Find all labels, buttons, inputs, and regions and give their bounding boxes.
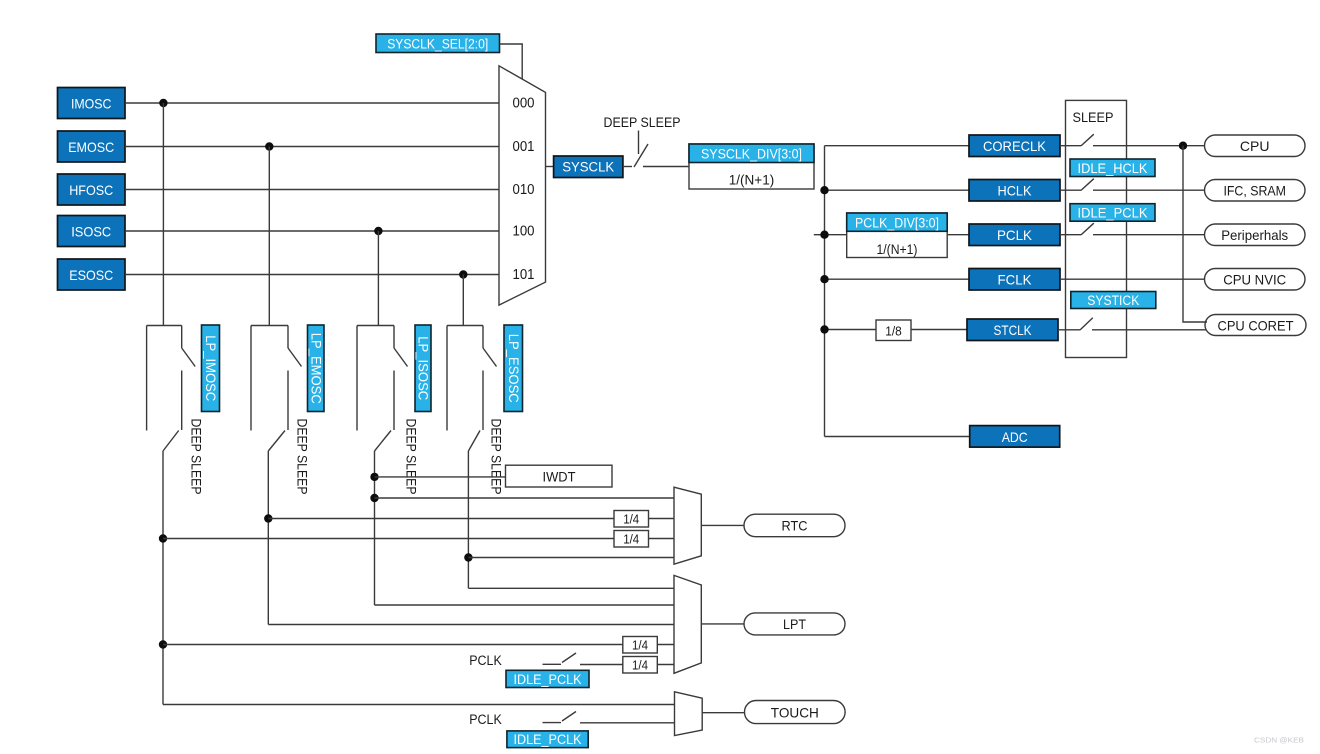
divider box 1/4 (LPT upper) [623, 637, 658, 654]
switch DEEP SLEEP blade (ESOSC) [468, 431, 480, 452]
divider box 1/4 (RTC upper) [614, 511, 649, 528]
svg-text:IDLE_HCLK: IDLE_HCLK [1078, 161, 1148, 176]
wire main clock bus vertical [824, 146, 826, 437]
svg-text:IDLE_PCLK: IDLE_PCLK [514, 672, 582, 687]
wire SYSCLK_SEL to mux select [500, 44, 523, 79]
wire STCLK to systick switch [1058, 329, 1080, 331]
wire LP network top bar (ISOSC) [357, 325, 394, 327]
oscillator box IMOSC [58, 88, 126, 119]
divider box 1/8 [876, 320, 911, 341]
wire LP network right branch lower (ISOSC) [393, 371, 395, 431]
mux U4 TOUCH clock selector [675, 692, 703, 736]
wire EMOSC to mux input [125, 146, 500, 148]
oscillator box EMOSC [58, 131, 126, 162]
svg-text:CPU: CPU [1240, 138, 1270, 154]
svg-text:DEEP SLEEP: DEEP SLEEP [604, 114, 681, 130]
wire ISOSC to RTC mux in1 [375, 497, 675, 499]
svg-text:PCLK: PCLK [997, 227, 1033, 243]
wire ISOSC LP output vertical [374, 451, 376, 605]
svg-text:IWDT: IWDT [543, 469, 576, 485]
wire ISOSC to IWDT [375, 476, 506, 478]
control box IDLE_PCLK [1070, 204, 1155, 222]
mux U1 system clock selector [499, 66, 546, 305]
svg-text:LPT: LPT [783, 616, 806, 632]
svg-text:CORECLK: CORECLK [983, 138, 1047, 154]
svg-text:IFC, SRAM: IFC, SRAM [1223, 183, 1286, 199]
junction dot bus/PCLK [820, 231, 828, 239]
oscillator box ISOSC [58, 216, 126, 247]
control box LP_EMOSC [308, 325, 325, 412]
wire 1/4 to LPT mux in4 [657, 644, 674, 646]
wire switch to Periperhals [1093, 234, 1205, 236]
wire bus to CORECLK [825, 145, 970, 147]
wire mux output to SYSCLK [546, 166, 554, 168]
junction dot IMOSC/RTC [159, 534, 167, 542]
wire ESOSC to LPT mux in1 [468, 587, 674, 589]
control box LP_ESOSC [504, 325, 523, 412]
wire LP network top bar (ESOSC) [447, 325, 483, 327]
wire LP network right branch (EMOSC) [287, 326, 289, 349]
junction dot on IMOSC line [159, 99, 167, 107]
junction dot EMOSC/RTC [264, 514, 272, 522]
wire 1/4 to RTC mux in3 [649, 538, 675, 540]
wire 1/4 to LPT mux in5 [657, 664, 674, 666]
svg-text:EMOSC: EMOSC [68, 139, 114, 155]
svg-text:1/4: 1/4 [632, 658, 648, 673]
oscillator box HFOSC [58, 174, 126, 205]
mux U2 RTC clock selector [674, 487, 701, 564]
clock box HCLK [969, 180, 1060, 202]
wire RTC mux to RTC [701, 524, 744, 526]
wire HCLK to idle switch [1060, 189, 1081, 191]
svg-text:1/4: 1/4 [632, 638, 648, 653]
wire EMOSC drop to LP network [268, 147, 270, 326]
destination pill Periperhals [1205, 224, 1306, 246]
wire CPU line down to CPU CORET [1183, 146, 1207, 322]
destination pill CPU NVIC [1205, 269, 1306, 291]
wire LPT mux to LPT [701, 623, 744, 625]
svg-text:LP_ESOSC: LP_ESOSC [506, 334, 521, 403]
svg-text:SYSCLK_SEL[2:0]: SYSCLK_SEL[2:0] [387, 36, 488, 51]
wire PCLK stub (TOUCH) [543, 722, 562, 724]
wire PCLK to idle switch [1060, 234, 1081, 236]
wire stub left of bus at PCLK row [814, 234, 825, 236]
destination pill CPU CORET [1205, 315, 1306, 336]
divider block PCLK_DIV[3:0] 1/(N+1) [847, 213, 948, 258]
wire IMOSC to TOUCH mux in1 [163, 704, 675, 706]
svg-text:Periperhals: Periperhals [1221, 227, 1288, 243]
switch idle gate for PCLK [1081, 223, 1094, 235]
switch DEEP SLEEP blade (EMOSC) [268, 431, 285, 452]
wire CORECLK to idle switch [1060, 145, 1081, 147]
svg-text:1/8: 1/8 [885, 323, 902, 338]
svg-text:HFOSC: HFOSC [69, 182, 113, 198]
divider box 1/4 (LPT lower) [623, 657, 658, 674]
svg-text:ADC: ADC [1002, 429, 1028, 445]
wire ISOSC to LPT mux in2 [375, 604, 675, 606]
svg-text:1/4: 1/4 [623, 532, 639, 547]
wire LP network right branch (ESOSC) [482, 326, 484, 349]
junction dot bus/FCLK [820, 275, 828, 283]
wire ESOSC drop to LP network [462, 275, 464, 326]
junction dot on ISOSC line [374, 227, 382, 235]
wire PCLK_DIV to PCLK [947, 234, 969, 236]
svg-text:000: 000 [513, 96, 535, 112]
switch IDLE_PCLK blade (LPT) [562, 653, 576, 663]
switch LP_ISOSC blade [394, 348, 408, 367]
wire ESOSC LP output vertical [467, 451, 469, 588]
switch idle gate for CORECLK [1081, 134, 1094, 146]
svg-text:CPU NVIC: CPU NVIC [1223, 272, 1286, 288]
destination pill LPT [744, 613, 845, 635]
control box SYSTICK [1071, 292, 1156, 309]
svg-text:IMOSC: IMOSC [71, 96, 112, 112]
svg-text:101: 101 [513, 267, 535, 283]
svg-text:ESOSC: ESOSC [69, 267, 113, 283]
wire IMOSC to mux input [125, 102, 500, 104]
junction dot bus/HCLK [820, 186, 828, 194]
wire LP network left branch (EMOSC) [250, 326, 252, 431]
wire bus to 1/8 divider [825, 329, 877, 331]
wire 1/8 to STCLK [911, 329, 967, 331]
svg-text:CSDN @KEB: CSDN @KEB [1254, 736, 1304, 745]
wire switch to CPU [1093, 145, 1205, 147]
junction dot ISOSC/RTC [370, 494, 378, 502]
wire LP network right branch lower (ESOSC) [482, 371, 484, 431]
wire switch to IFC, SRAM [1093, 189, 1205, 191]
wire LP network left branch (ISOSC) [356, 326, 358, 431]
wire FCLK to CPU NVIC [1060, 278, 1205, 280]
wire EMOSC to 1/4 divider (RTC) [268, 518, 614, 520]
divider box 1/4 (RTC lower) [614, 531, 649, 548]
svg-text:SLEEP: SLEEP [1073, 109, 1114, 125]
mux U3 LPT clock selector [674, 575, 701, 673]
svg-text:STCLK: STCLK [994, 322, 1033, 338]
junction dot on EMOSC line [265, 142, 273, 150]
destination pill TOUCH [745, 701, 846, 724]
wire IMOSC drop to LP network [162, 103, 164, 326]
node SYSCLK box [554, 156, 623, 178]
switch DEEP SLEEP (sysclk gate) [634, 144, 648, 167]
block IWDT [506, 465, 613, 487]
block ADC [970, 426, 1060, 448]
svg-text:PCLK: PCLK [469, 712, 502, 727]
switch IDLE_PCLK blade (TOUCH) [562, 712, 576, 722]
svg-text:PCLK: PCLK [469, 653, 502, 668]
wire HFOSC to mux input [125, 189, 500, 191]
svg-text:SYSCLK_DIV[3:0]: SYSCLK_DIV[3:0] [701, 146, 802, 161]
wire ISOSC to mux input [125, 230, 500, 232]
svg-text:TOUCH: TOUCH [771, 704, 819, 720]
junction dot IMOSC/LPT [159, 640, 167, 648]
svg-text:1/4: 1/4 [623, 512, 639, 527]
oscillator box ESOSC [58, 259, 126, 290]
svg-text:RTC: RTC [782, 518, 808, 534]
svg-text:DEEP SLEEP: DEEP SLEEP [488, 419, 503, 495]
junction dot on CPU wire [1179, 142, 1187, 150]
svg-text:ISOSC: ISOSC [71, 224, 111, 240]
wire IMOSC to 1/4 divider (RTC) [163, 538, 614, 540]
wire LP network left branch (ESOSC) [446, 326, 448, 431]
svg-text:001: 001 [513, 139, 535, 155]
svg-text:010: 010 [513, 182, 535, 198]
svg-text:LP_EMOSC: LP_EMOSC [308, 333, 323, 404]
wire switch to CPU CORET [1092, 329, 1206, 331]
wire bus to HCLK [825, 189, 970, 191]
clock box STCLK [967, 319, 1058, 341]
control box LP_IMOSC [202, 325, 220, 412]
wire LP network right branch lower (EMOSC) [287, 371, 289, 431]
switch LP_ESOSC blade [483, 348, 497, 367]
svg-text:DEEP SLEEP: DEEP SLEEP [188, 419, 203, 495]
control box IDLE_HCLK [1070, 159, 1155, 177]
destination pill CPU [1205, 135, 1306, 157]
svg-text:IDLE_PCLK: IDLE_PCLK [514, 732, 582, 747]
switch idle gate for HCLK [1081, 179, 1094, 191]
wire LP network right branch (IMOSC) [181, 326, 183, 349]
switch systick gate [1080, 318, 1093, 330]
destination pill RTC [744, 514, 845, 537]
sleep gate region box SLEEP [1066, 100, 1127, 357]
switch LP_EMOSC blade [288, 348, 302, 367]
switch DEEP SLEEP blade (IMOSC) [163, 431, 179, 452]
wire LP network right branch lower (IMOSC) [181, 371, 183, 431]
junction dot ISOSC/IWDT [370, 473, 378, 481]
divider block SYSCLK_DIV[3:0] 1/(N+1) [689, 144, 814, 189]
switch LP_IMOSC blade [182, 348, 196, 367]
control box IDLE_PCLK (TOUCH) [507, 731, 588, 748]
wire SYSCLK to deep-sleep switch [623, 166, 632, 168]
svg-text:CPU CORET: CPU CORET [1218, 318, 1294, 334]
svg-text:LP_ISOSC: LP_ISOSC [416, 336, 431, 400]
svg-text:100: 100 [513, 224, 535, 240]
svg-text:DEEP SLEEP: DEEP SLEEP [403, 419, 418, 495]
control box SYSCLK_SEL[2:0] [376, 34, 500, 53]
clock box PCLK [969, 224, 1060, 246]
wire bus to FCLK [825, 278, 970, 280]
wire IMOSC to 1/4 divider (LPT) [163, 644, 623, 646]
wire EMOSC LP output vertical [267, 451, 269, 625]
wire EMOSC to LPT mux in3 [268, 624, 674, 626]
svg-text:LP_IMOSC: LP_IMOSC [203, 335, 218, 401]
control box LP_ISOSC [415, 325, 431, 412]
svg-text:SYSTICK: SYSTICK [1087, 293, 1139, 308]
control box IDLE_PCLK (LPT) [506, 670, 589, 687]
wire switch to TOUCH mux in2 [580, 722, 675, 724]
svg-text:DEEP SLEEP: DEEP SLEEP [294, 419, 309, 495]
wire TOUCH mux to TOUCH [702, 712, 744, 714]
wire ISOSC drop to LP network [377, 231, 379, 326]
svg-text:HCLK: HCLK [998, 183, 1033, 199]
wire IMOSC LP output vertical [162, 451, 164, 705]
switch DEEP SLEEP blade (ISOSC) [375, 431, 392, 452]
svg-text:1/(N+1): 1/(N+1) [729, 173, 775, 188]
wire switch to 1/4 (LPT) [580, 664, 623, 666]
svg-text:IDLE_PCLK: IDLE_PCLK [1078, 206, 1148, 221]
junction dot ESOSC/RTC [464, 553, 472, 561]
wire ESOSC to RTC mux in4 [468, 557, 674, 559]
clock box CORECLK [969, 135, 1060, 157]
svg-text:1/(N+1): 1/(N+1) [877, 242, 918, 257]
clock box FCLK [969, 269, 1060, 291]
wire LP network top bar (EMOSC) [251, 325, 288, 327]
wire LP network right branch (ISOSC) [393, 326, 395, 349]
wire bus to PCLK_DIV [825, 234, 847, 236]
svg-text:SYSCLK: SYSCLK [562, 160, 614, 175]
svg-text:FCLK: FCLK [998, 272, 1033, 288]
wire 1/4 to RTC mux in2 [649, 518, 675, 520]
junction dot on ESOSC line [459, 270, 467, 278]
wire LP network left branch (IMOSC) [146, 326, 148, 431]
destination pill IFC, SRAM [1205, 180, 1306, 202]
svg-text:PCLK_DIV[3:0]: PCLK_DIV[3:0] [855, 215, 939, 230]
wire switch to SYSCLK_DIV [643, 166, 689, 168]
wire ESOSC to mux input [125, 274, 500, 276]
wire LP network top bar (IMOSC) [147, 325, 182, 327]
wire bus to ADC [825, 436, 970, 438]
wire PCLK stub (LPT) [543, 663, 562, 665]
junction dot bus/STCLK [820, 325, 828, 333]
